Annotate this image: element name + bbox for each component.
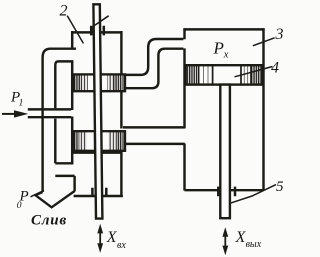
- piston rod: [220, 85, 230, 219]
- drain channel top edge (valve bottom-left port): [55, 162, 73, 164]
- lower gland housing left wall: [73, 176, 75, 191]
- input rod (spool stem), through everything: [93, 4, 102, 218]
- lower spool land: [74, 131, 126, 151]
- valve body right wall (gaps at right ports): [120, 31, 122, 197]
- cylinder bottom gland seal ticks: [218, 187, 235, 197]
- valve bore bottom line: [72, 151, 122, 153]
- valve bottom gland seal ticks: [92, 188, 106, 196]
- lower channel valve-to-cylinder top edge: [123, 126, 184, 128]
- cylinder bottom edge: [185, 189, 264, 191]
- S-pipe inner edge: [123, 49, 183, 88]
- X output double arrow: [224, 233, 226, 249]
- svg-text:2: 2: [60, 3, 68, 20]
- upper spool land: [74, 74, 126, 91]
- svg-text:X: X: [106, 229, 118, 246]
- svg-text:вх: вх: [117, 240, 126, 251]
- svg-text:Слив: Слив: [31, 213, 67, 229]
- svg-text:5: 5: [276, 179, 284, 195]
- X input double arrow: [99, 229, 101, 248]
- label 5 leader: [230, 185, 277, 204]
- diagonal tick on rod top: [95, 16, 109, 26]
- lower channel valve-to-cylinder bottom edge: [123, 143, 185, 145]
- svg-text:0: 0: [17, 201, 22, 211]
- valve top gland seal ticks: [91, 26, 104, 36]
- label 2 leader: [67, 16, 83, 44]
- svg-text:4: 4: [271, 60, 279, 77]
- svg-text:вых: вых: [246, 239, 262, 250]
- svg-text:3: 3: [275, 26, 284, 43]
- cylinder left wall (gaps: top pipe 39.5-48, lower channel 128.5-143.5): [183, 28, 185, 190]
- drain arrow (hollow, pointing down): [35, 191, 74, 207]
- lower gland housing bottom edge: [74, 195, 123, 197]
- drain elbow outer edge (valve to down-pipe): [43, 49, 76, 192]
- valve body top edge: [71, 31, 122, 33]
- drain elbow inner edge: [55, 61, 73, 163]
- svg-text:1: 1: [19, 98, 24, 108]
- svg-text:P: P: [213, 38, 224, 57]
- port channel to cylinder top (S-pipe) outer edge: [123, 39, 183, 75]
- drain channel bottom edge: [55, 175, 74, 177]
- cylinder top edge: [183, 28, 264, 30]
- label 3 leader: [253, 38, 275, 46]
- piston: [186, 65, 263, 84]
- svg-text:х: х: [223, 49, 229, 60]
- P1 inlet channel walls: [28, 109, 71, 117]
- label 4 leader: [235, 67, 273, 77]
- valve body left wall (gaps: drain elbow port 48.5-61.5, P1 port 110-116.5): [71, 31, 73, 163]
- cylinder right wall: [262, 28, 264, 190]
